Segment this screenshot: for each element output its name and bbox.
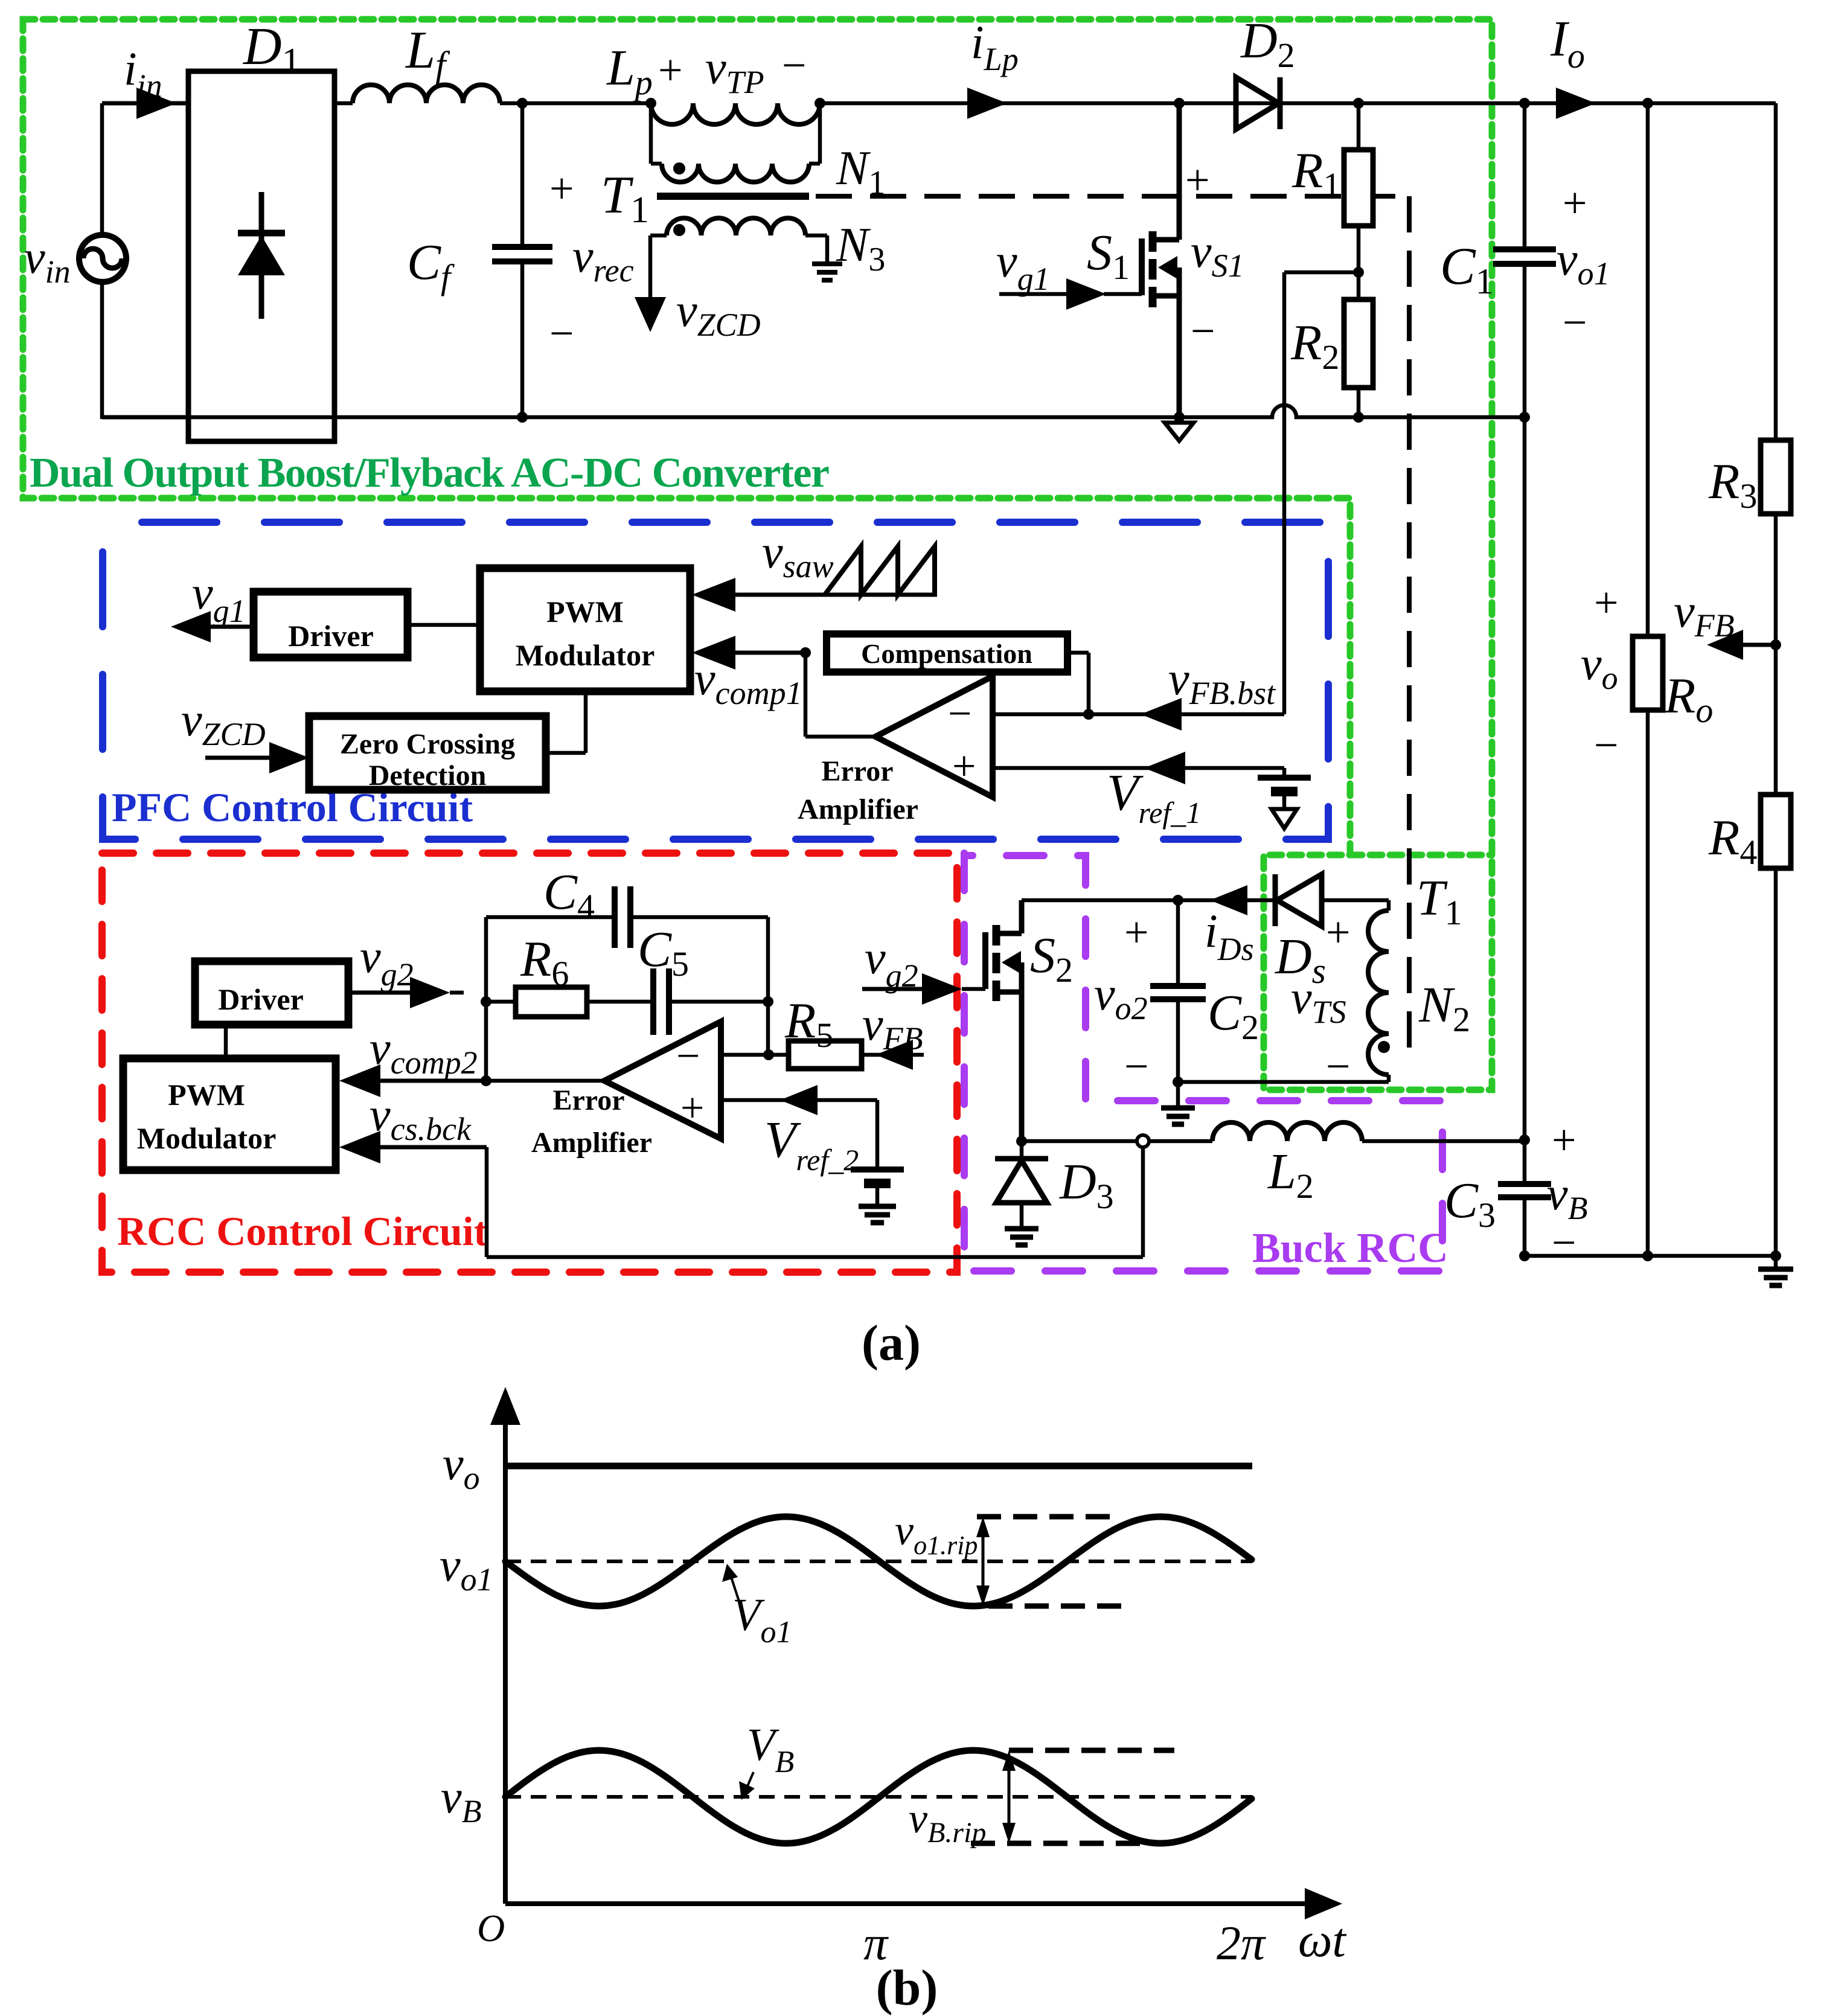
op-amp Error Amplifier PFC	[875, 676, 993, 797]
svg-text:−: −	[1326, 1042, 1351, 1090]
svg-text:Dual Output Boost/Flyback AC-D: Dual Output Boost/Flyback AC-DC Converte…	[30, 450, 830, 496]
wire C2 ground stub	[1176, 1082, 1180, 1108]
arrow I_o	[1556, 88, 1596, 119]
wire N3 right to ground	[825, 235, 830, 264]
wire vertical C1-C3 link	[1523, 417, 1527, 1184]
sawtooth waveform icon	[825, 546, 935, 595]
resistor R1	[1344, 150, 1373, 226]
node L2 input (open)	[1137, 1135, 1149, 1147]
ground D3	[1005, 1226, 1039, 1232]
ground Vref1 (open triangle)	[1272, 809, 1297, 828]
battery Vref1	[1282, 768, 1287, 778]
wire S1 drain to C1 node	[1179, 101, 1525, 106]
node Ro bottom	[1642, 1250, 1653, 1261]
wire EA2 output	[486, 1079, 604, 1083]
node EA2 output junction	[481, 1075, 491, 1086]
node T1 left	[645, 98, 656, 109]
wire C4 top left	[486, 915, 615, 920]
resistor R5	[789, 1041, 862, 1069]
winding N2	[1368, 910, 1389, 1075]
node R1-R2 junction	[1353, 267, 1364, 278]
capacitor C1	[1523, 103, 1527, 249]
ground main output	[1758, 1267, 1793, 1272]
node T1 right	[814, 98, 825, 109]
wire Driver2-PWM2	[224, 1025, 228, 1058]
wire vcomp1 to EA output	[804, 653, 808, 737]
N2 polarity dot	[1378, 1041, 1390, 1053]
arrow v_g2 out	[348, 991, 417, 995]
winding N3	[650, 234, 667, 238]
transistor S1	[1177, 103, 1182, 240]
node C3 top	[1519, 1134, 1530, 1145]
wire Driver-PWM	[408, 623, 480, 627]
wire R5 to vFB arrow	[862, 1053, 924, 1057]
svg-text:+: +	[549, 164, 574, 213]
svg-text:+: +	[952, 743, 976, 790]
svg-text:Error: Error	[821, 755, 893, 787]
arrow i_Ds	[1210, 885, 1247, 915]
wire node to L2	[1149, 1139, 1212, 1144]
wire C4 loop left	[484, 917, 488, 1081]
svg-text:Amplifier: Amplifier	[798, 793, 918, 825]
transformer T1 core bar	[657, 193, 809, 200]
wire R1-R2	[1357, 226, 1361, 299]
resistor R4	[1761, 795, 1791, 868]
capacitor C4	[612, 886, 618, 948]
node vcomp1 junction	[800, 647, 811, 658]
v_B ripple peak dashed	[1009, 1748, 1174, 1753]
resistor R2	[1344, 299, 1373, 388]
node C5 right junction	[763, 996, 773, 1007]
wire R4 bottom	[1774, 868, 1778, 1256]
wire Lp right stub	[818, 103, 822, 164]
waveform v_o flat line	[505, 1463, 1252, 1470]
bridge rectifier D1 box	[188, 71, 334, 441]
waveform y-axis	[503, 1419, 508, 1904]
v_o1 ripple trough dashed	[988, 1604, 1124, 1609]
svg-text:ωt: ωt	[1298, 1914, 1346, 1967]
winding Lp	[651, 103, 820, 124]
node vFB	[1770, 639, 1781, 650]
capacitor C5	[650, 968, 656, 1035]
wire N2 bottom	[1387, 1075, 1391, 1082]
svg-text:+: +	[1563, 179, 1587, 227]
svg-text:−: −	[1594, 721, 1619, 769]
wire C4 loop right	[766, 917, 770, 1055]
wire bridge to Lf	[334, 101, 353, 106]
node Cf bottom	[517, 412, 528, 423]
wire ZCD to PWM	[546, 751, 586, 755]
arrow vFB into R5	[875, 1040, 913, 1070]
svg-text:−: −	[948, 691, 971, 737]
arrow Vref2 into EA2+	[780, 1085, 818, 1115]
block PWM Modulator (RCC)	[123, 1058, 336, 1170]
wire R6 left lead	[486, 1000, 516, 1004]
v_B ripple double arrow	[1008, 1759, 1011, 1835]
svg-text:Modulator: Modulator	[516, 638, 655, 672]
green dotted boundary: Dual Output Boost/Flyback AC-DC Converter region	[23, 19, 1492, 1090]
wire R3 to vFB node	[1774, 514, 1778, 795]
svg-text:PWM: PWM	[546, 595, 624, 629]
ground S1 (open triangle)	[1165, 423, 1194, 441]
wire C5 right lead	[669, 1000, 768, 1004]
diode D2	[1236, 77, 1279, 129]
wire Ro line top	[1646, 103, 1650, 636]
diode inside D1	[259, 192, 264, 319]
svg-text:O: O	[477, 1907, 505, 1950]
wire bottom ground rail	[1525, 1254, 1776, 1258]
v_o1 ripple peak dashed	[977, 1514, 1113, 1520]
wire R2 bottom	[1357, 388, 1361, 417]
svg-text:−: −	[676, 1033, 700, 1080]
svg-text:+: +	[680, 1085, 704, 1131]
arrow vcs.bck into PWM2	[374, 1145, 487, 1150]
svg-text:+: +	[1552, 1116, 1576, 1164]
bottom rail	[102, 405, 1525, 417]
arrow i_Lp	[967, 88, 1007, 119]
winding N1	[651, 162, 662, 166]
wire EA+ input	[993, 766, 1284, 770]
node S1 source	[1174, 412, 1185, 423]
node EA2- R5 junction	[763, 1049, 774, 1060]
annotation V_B arrow	[746, 1772, 754, 1790]
wire C2 node to Ds	[1178, 898, 1275, 903]
red dashed boundary: RCC Control Circuit region	[102, 853, 957, 1272]
wire EA2- input	[721, 1053, 789, 1057]
node ground rail right	[1770, 1250, 1781, 1261]
svg-text:+: +	[1594, 578, 1619, 627]
wire transformer to S1 drain	[820, 101, 1179, 106]
waveform x-axis	[505, 1901, 1307, 1906]
arrow vcomp1 into PWM	[725, 651, 805, 655]
node Ro branch	[1642, 98, 1653, 109]
wire vcs.bck sense path	[485, 1147, 489, 1257]
svg-text:Modulator: Modulator	[137, 1121, 277, 1155]
battery Vref2	[875, 1100, 880, 1170]
wire Compensation right	[1067, 651, 1089, 655]
node C1 bottom	[1519, 412, 1530, 423]
svg-text:−: −	[1191, 307, 1215, 355]
blue dashed boundary: PFC Control Circuit region	[103, 522, 1328, 839]
wire right edge down	[1774, 103, 1778, 440]
waveform v_o1 mean dashed	[505, 1560, 1252, 1563]
wire EA- input vFBbst	[993, 712, 1284, 717]
arrow vFB.bst	[1141, 698, 1182, 731]
arrow v_g1 output	[208, 625, 254, 629]
wire v_g1 gate lead	[999, 292, 1069, 296]
block Zero Crossing Detection	[309, 716, 546, 790]
svg-text:Zero Crossing: Zero Crossing	[340, 728, 515, 760]
svg-text:Amplifier: Amplifier	[531, 1127, 652, 1159]
wire Ro line bottom	[1646, 710, 1650, 1256]
wire R6-C5	[587, 1000, 653, 1004]
arrow Vref1 into EA+	[1144, 752, 1185, 784]
resistor R6	[516, 987, 587, 1017]
arrow v_g2 into S2 gate	[862, 987, 930, 991]
capacitor C2	[1176, 900, 1180, 986]
node S2 junction	[1016, 1136, 1027, 1147]
svg-text:Buck RCC: Buck RCC	[1252, 1225, 1448, 1272]
wire Lp left stub	[649, 103, 653, 164]
svg-text:Error: Error	[552, 1084, 624, 1116]
wire divider tap to FB	[1284, 270, 1359, 275]
block Driver (RCC)	[195, 961, 348, 1025]
svg-text:−: −	[782, 41, 807, 89]
block Driver (PFC)	[254, 592, 408, 658]
svg-text:+: +	[1326, 908, 1351, 956]
node C2 bottom	[1173, 1077, 1183, 1087]
svg-text:(a): (a)	[862, 1315, 921, 1371]
ground C2	[1161, 1106, 1195, 1111]
resistor R3	[1761, 440, 1791, 514]
arrow vZCD down	[635, 297, 666, 332]
purple dashed boundary: Buck RCC region	[964, 853, 1442, 1271]
svg-text:−: −	[1563, 298, 1587, 347]
arrow vcomp2 into PWM2	[374, 1079, 486, 1083]
capacitor C3	[1498, 1181, 1551, 1187]
svg-text:+: +	[1185, 156, 1210, 204]
ground N3	[812, 261, 842, 266]
arrow vFB	[1741, 643, 1776, 647]
wire Ds to N2	[1322, 898, 1389, 903]
op-amp Error Amplifier RCC	[604, 1022, 721, 1139]
arrow vZCD into ZCD block	[205, 756, 281, 760]
arrow vsaw into PWM	[725, 593, 937, 597]
wire ground stub	[1774, 1256, 1778, 1269]
node R2 bottom	[1353, 412, 1364, 423]
node S1 drain	[1174, 98, 1185, 109]
wire S2 drain to C2 node	[1022, 898, 1178, 903]
wire Lf to transformer	[500, 101, 652, 106]
annotation V_o1 arrow	[730, 1573, 739, 1601]
v_o1 ripple double arrow	[982, 1525, 985, 1598]
svg-text:+: +	[1124, 908, 1149, 956]
svg-text:Detection: Detection	[369, 760, 487, 792]
arrow i_in	[136, 88, 176, 119]
v_B ripple trough dashed	[971, 1841, 1145, 1846]
diode Ds	[1273, 874, 1278, 926]
wire vin bottom	[100, 281, 104, 419]
svg-text:2π: 2π	[1217, 1917, 1266, 1970]
svg-text:−: −	[1124, 1042, 1149, 1090]
svg-text:(b): (b)	[876, 1960, 938, 2016]
AC source vin	[79, 235, 126, 282]
svg-text:Driver: Driver	[218, 982, 304, 1016]
wire L2 to C3	[1362, 1139, 1525, 1144]
waveform v_o1 ripple curve	[505, 1517, 1252, 1606]
svg-text:RCC Control Circuit: RCC Control Circuit	[117, 1208, 488, 1254]
block PWM Modulator (PFC)	[480, 568, 690, 691]
svg-text:PWM: PWM	[168, 1078, 245, 1112]
wire top rail right	[1525, 101, 1776, 106]
wire EA2+ input	[721, 1098, 877, 1102]
resistor Ro	[1633, 636, 1663, 710]
waveform v_B mean dashed	[505, 1795, 1252, 1799]
block Compensation	[827, 634, 1067, 672]
svg-text:Compensation: Compensation	[861, 638, 1032, 669]
svg-text:−: −	[1552, 1218, 1576, 1267]
node R1 top	[1353, 98, 1364, 109]
node C2 top	[1173, 895, 1183, 906]
wire vZCD drop	[648, 235, 653, 299]
svg-text:+: +	[658, 46, 683, 94]
wire R1 top lead	[1357, 103, 1361, 150]
N3 polarity dot	[673, 224, 685, 236]
inductor Lf	[353, 85, 500, 103]
ground Vref2	[859, 1204, 896, 1209]
wire vin top	[100, 103, 104, 236]
transistor S2	[1019, 900, 1025, 933]
node Cf top	[517, 98, 528, 109]
node C1 top	[1519, 98, 1530, 109]
transformer T1 coupling dashed line (horizontal)	[816, 194, 1409, 199]
svg-text:−: −	[549, 309, 574, 357]
inductor L2	[1212, 1122, 1362, 1141]
wire S2 source to node	[1022, 1139, 1138, 1144]
svg-text:Driver: Driver	[288, 619, 374, 653]
node Compensation feedback	[1083, 709, 1094, 720]
node C3 bottom	[1519, 1250, 1530, 1261]
arrow v_g1 into gate	[1066, 278, 1106, 310]
capacitor Cf	[520, 103, 525, 247]
transformer T1 coupling dashed line (vertical to secondary)	[1407, 196, 1412, 1063]
node R6 left junction	[481, 996, 491, 1007]
waveform v_B ripple curve	[505, 1750, 1252, 1843]
diode D3	[1020, 1141, 1024, 1159]
wire C4 top right	[630, 915, 768, 920]
N1 polarity dot	[673, 162, 685, 174]
